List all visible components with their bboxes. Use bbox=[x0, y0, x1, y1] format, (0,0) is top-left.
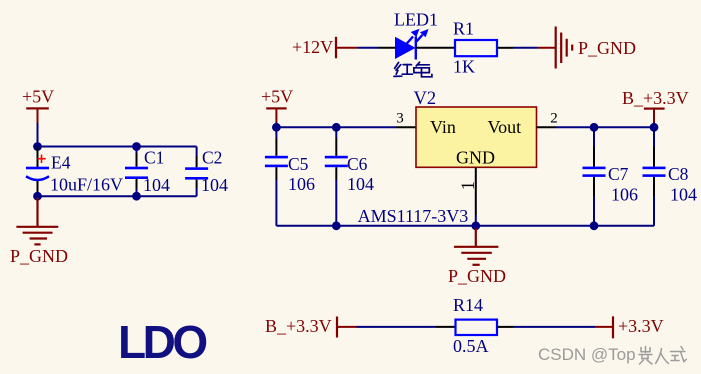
svg-text:P_GND: P_GND bbox=[448, 266, 506, 286]
E4 designator label bbox=[51, 153, 71, 173]
svg-text:Vin: Vin bbox=[430, 117, 456, 137]
svg-text:0.5A: 0.5A bbox=[453, 336, 489, 356]
svg-text:P_GND: P_GND bbox=[578, 38, 636, 58]
capacitor C6 bbox=[325, 127, 348, 226]
svg-text:C6: C6 bbox=[347, 154, 368, 174]
junction bbox=[332, 221, 341, 230]
junction bbox=[132, 192, 141, 201]
resistor R14 bbox=[436, 320, 513, 335]
V2 designator label bbox=[414, 89, 437, 109]
capacitor C8 bbox=[643, 127, 666, 226]
wire bbox=[358, 47, 379, 49]
wire bbox=[556, 126, 654, 128]
junction bbox=[590, 221, 599, 230]
svg-text:C1: C1 bbox=[144, 148, 164, 168]
junction bbox=[272, 123, 281, 132]
svg-text:C7: C7 bbox=[608, 164, 629, 184]
pin name Vin bbox=[430, 117, 456, 137]
R1 value label 1K bbox=[453, 57, 475, 77]
E4 value label 10uF/16V bbox=[50, 175, 123, 195]
svg-text:C8: C8 bbox=[668, 164, 689, 184]
pin 3 number bbox=[396, 111, 404, 127]
power port B_+3.3V (top) bbox=[622, 88, 689, 127]
R14 designator label bbox=[453, 295, 483, 315]
power port +5V (left) bbox=[22, 87, 54, 124]
C1 designator label bbox=[144, 148, 164, 168]
svg-text:R1: R1 bbox=[453, 19, 474, 39]
capacitor C7 bbox=[583, 127, 606, 226]
svg-text:LDO: LDO bbox=[118, 316, 206, 368]
junction bbox=[33, 142, 42, 151]
C1 value label 104 bbox=[143, 175, 170, 195]
R1 designator label bbox=[453, 19, 474, 39]
svg-text:B_+3.3V: B_+3.3V bbox=[622, 88, 689, 108]
wire bbox=[38, 146, 197, 148]
junction bbox=[332, 123, 341, 132]
svg-text:GND: GND bbox=[456, 148, 495, 168]
svg-text:E4: E4 bbox=[51, 153, 71, 173]
V2 part label AMS1117-3V3 bbox=[358, 206, 469, 226]
pin name GND bbox=[456, 148, 495, 168]
wire bbox=[357, 326, 437, 328]
wire bbox=[276, 126, 396, 128]
C7 value label 106 bbox=[611, 185, 638, 205]
pin 2 number bbox=[550, 111, 558, 127]
pin name Vout bbox=[488, 117, 522, 137]
capacitor E4 (polarized) bbox=[26, 147, 49, 197]
LED1 designator label bbox=[394, 10, 438, 30]
svg-text:B_+3.3V: B_+3.3V bbox=[265, 316, 332, 336]
svg-text:C2: C2 bbox=[202, 148, 222, 168]
svg-text:104: 104 bbox=[670, 185, 697, 205]
C2 value label 104 bbox=[201, 175, 228, 195]
wire bbox=[513, 47, 537, 49]
junction bbox=[590, 123, 599, 132]
svg-text:104: 104 bbox=[347, 174, 374, 194]
junction bbox=[33, 192, 42, 201]
svg-text:10uF/16V: 10uF/16V bbox=[50, 175, 123, 195]
svg-text:1K: 1K bbox=[453, 57, 475, 77]
watermark CSDN @Top嵌入式 bbox=[538, 345, 686, 364]
wire bbox=[275, 123, 277, 128]
svg-text:P_GND: P_GND bbox=[10, 246, 68, 266]
wire bbox=[276, 225, 654, 227]
svg-text:2: 2 bbox=[550, 111, 558, 127]
power ground P_GND (top right) bbox=[537, 27, 636, 69]
junction bbox=[650, 123, 659, 132]
power ground P_GND (left) bbox=[10, 198, 68, 266]
junction bbox=[471, 221, 480, 230]
C6 value label 104 bbox=[347, 174, 374, 194]
R14 value label 0.5A bbox=[453, 336, 489, 356]
svg-text:104: 104 bbox=[201, 175, 228, 195]
svg-text:Vout: Vout bbox=[488, 117, 522, 137]
capacitor C2 bbox=[185, 147, 208, 197]
C5 value label 106 bbox=[288, 174, 315, 194]
wire bbox=[38, 195, 197, 197]
LED1 colour label 红色 bbox=[394, 62, 432, 77]
svg-text:+5V: +5V bbox=[261, 87, 293, 107]
C5 designator label bbox=[288, 154, 309, 174]
svg-text:106: 106 bbox=[611, 185, 638, 205]
wire bbox=[475, 215, 477, 226]
resistor R1 bbox=[436, 40, 513, 56]
svg-text:104: 104 bbox=[143, 175, 170, 195]
LED LED1 bbox=[379, 29, 437, 60]
C6 designator label bbox=[347, 154, 368, 174]
power ground P_GND (middle) bbox=[448, 228, 506, 286]
wire bbox=[513, 326, 595, 328]
power port B_+3.3V (bottom) bbox=[265, 316, 357, 338]
svg-text:AMS1117-3V3: AMS1117-3V3 bbox=[358, 206, 469, 226]
junction bbox=[132, 142, 141, 151]
svg-text:106: 106 bbox=[288, 174, 315, 194]
C2 designator label bbox=[202, 148, 222, 168]
svg-text:V2: V2 bbox=[414, 89, 437, 109]
svg-text:+3.3V: +3.3V bbox=[618, 316, 664, 336]
power port +3.3V bbox=[595, 316, 664, 338]
pin 1 number bbox=[459, 181, 479, 190]
svg-text:R14: R14 bbox=[453, 295, 483, 315]
C8 value label 104 bbox=[670, 185, 697, 205]
power port +5V (LDO input) bbox=[261, 87, 293, 123]
svg-text:+5V: +5V bbox=[22, 87, 54, 107]
power port +12V bbox=[292, 37, 358, 59]
capacitor C1 bbox=[125, 147, 148, 197]
svg-text:LED1: LED1 bbox=[394, 10, 438, 30]
sheet title LDO bbox=[118, 316, 206, 368]
wire bbox=[37, 123, 39, 147]
C7 designator label bbox=[608, 164, 629, 184]
svg-text:1: 1 bbox=[459, 181, 479, 190]
svg-text:3: 3 bbox=[396, 111, 404, 127]
svg-text:+12V: +12V bbox=[292, 37, 333, 57]
svg-text:CSDN @Top: CSDN @Top bbox=[538, 345, 636, 364]
C8 designator label bbox=[668, 164, 689, 184]
regulator V2 AMS1117-3V3 bbox=[396, 107, 556, 215]
svg-text:C5: C5 bbox=[288, 154, 309, 174]
capacitor C5 bbox=[265, 127, 288, 226]
